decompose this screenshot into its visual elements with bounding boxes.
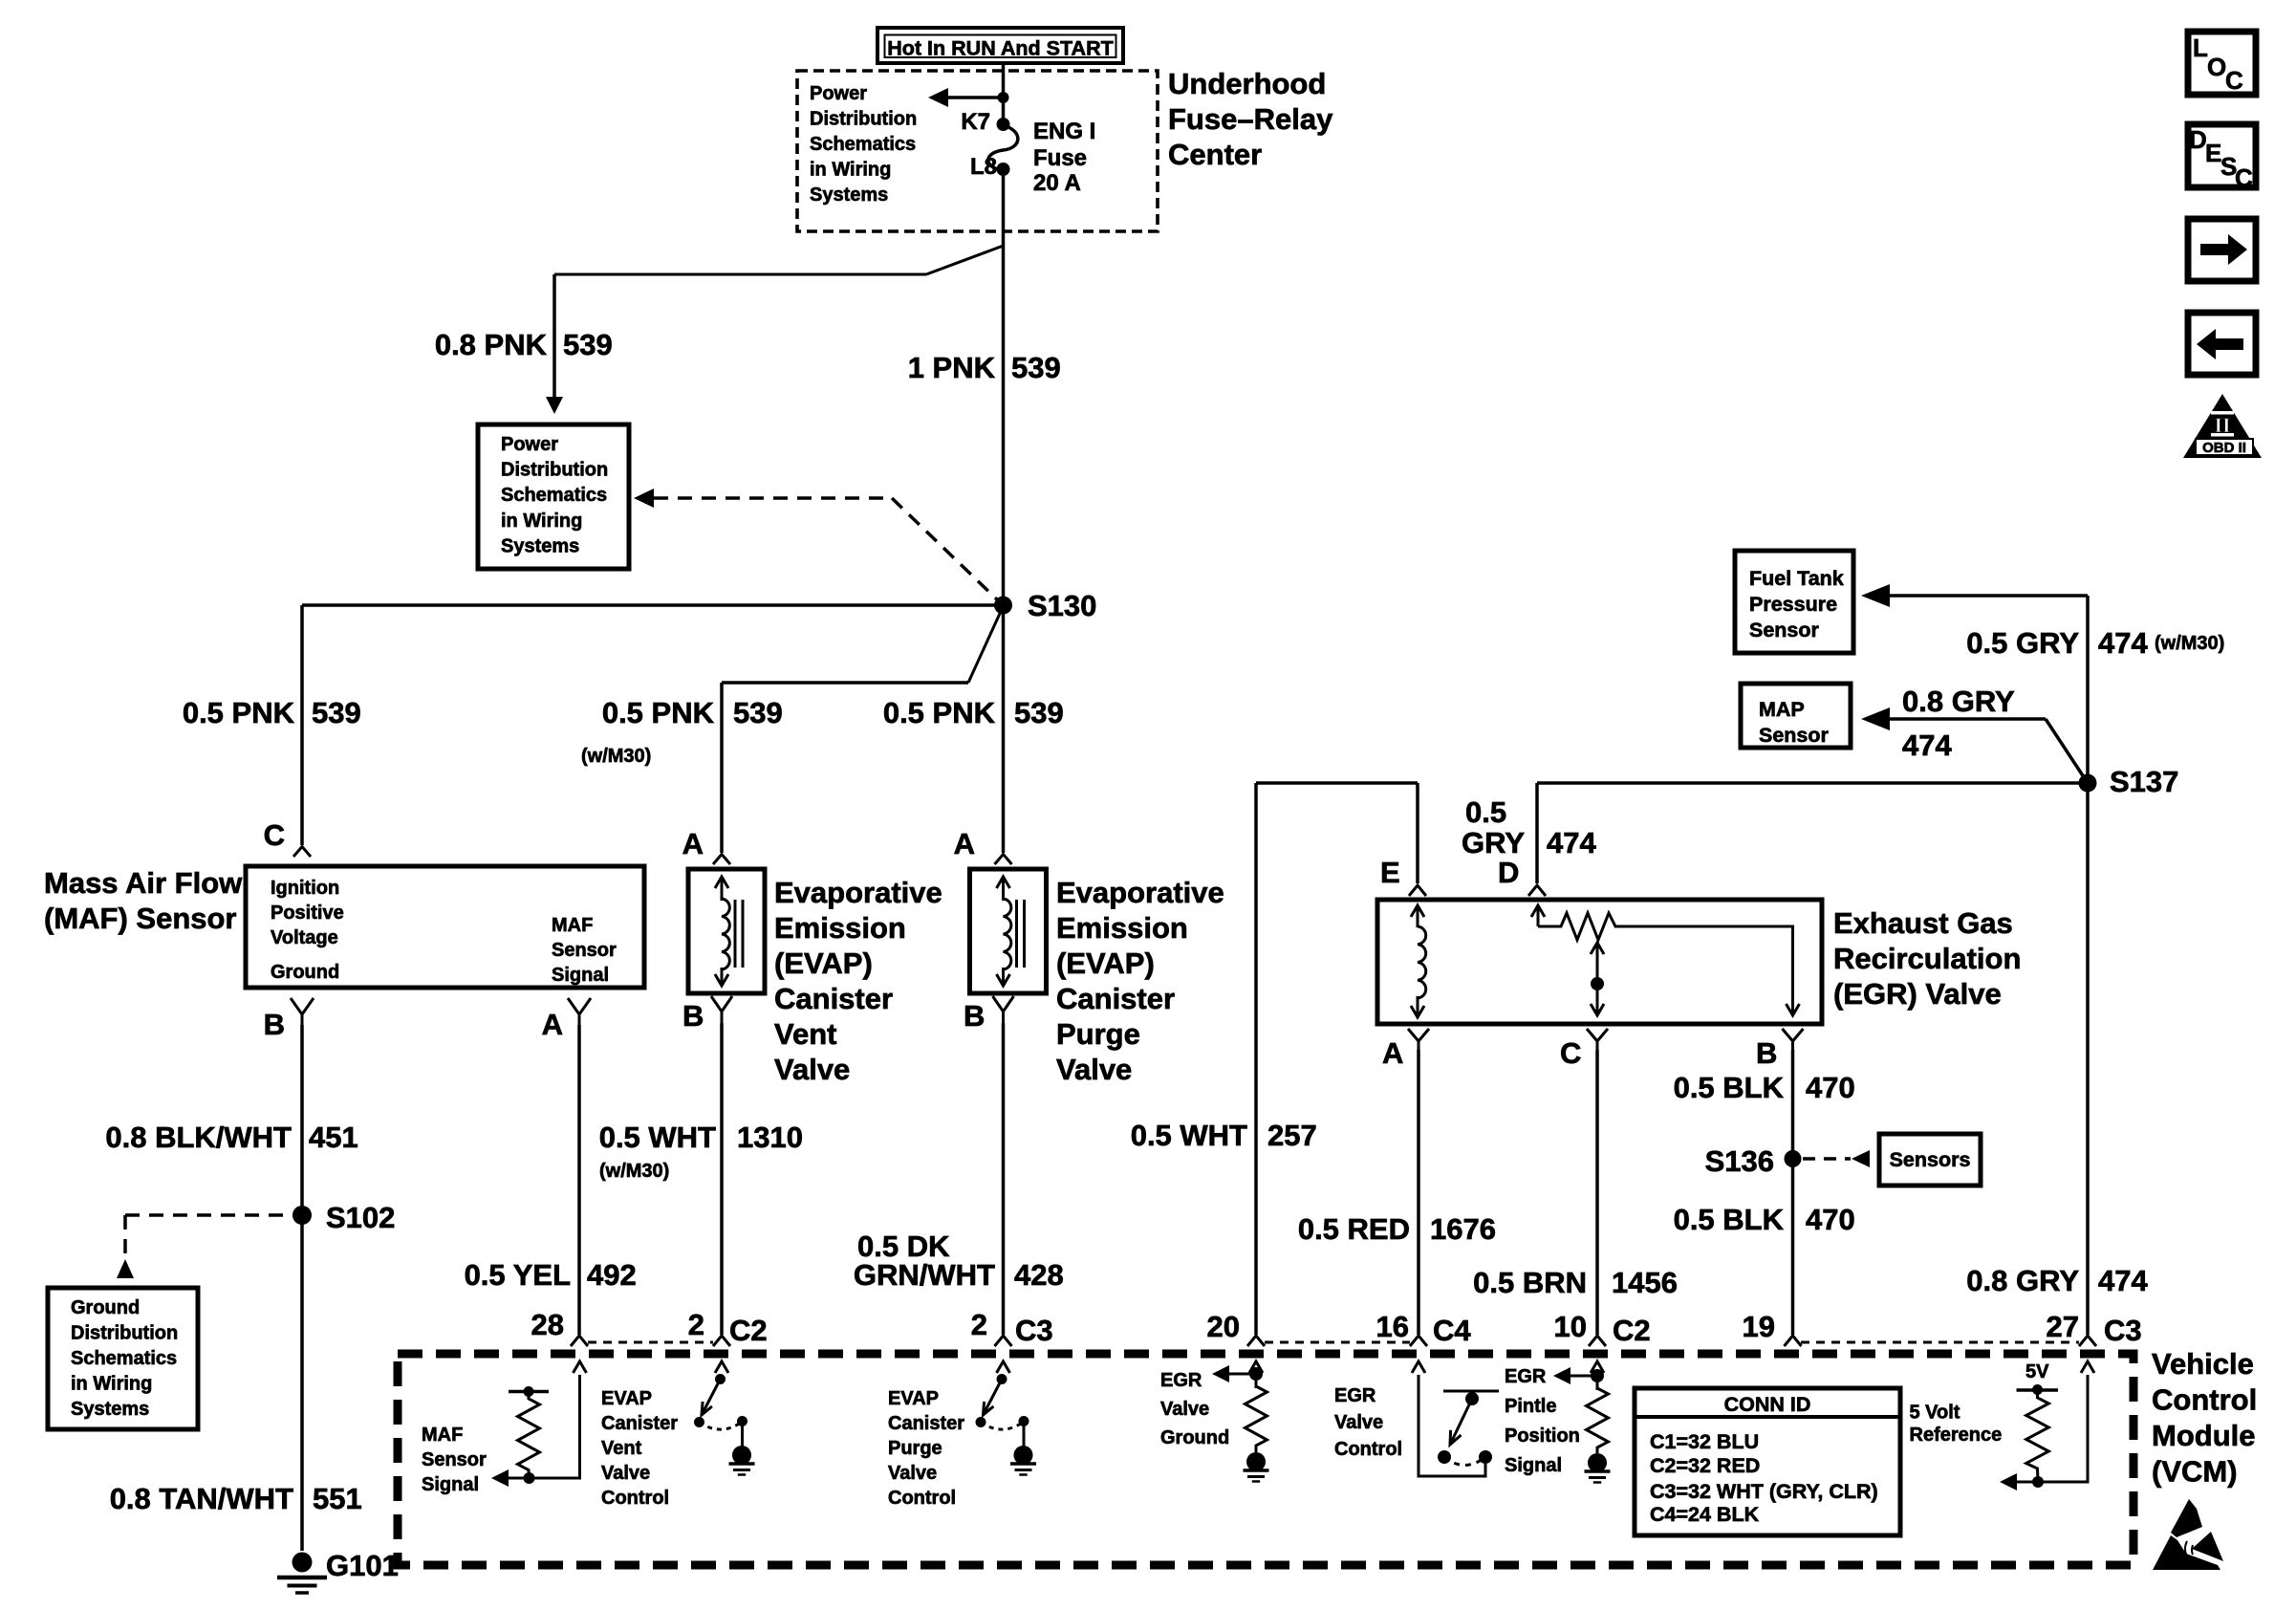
pin C of EGR valve bbox=[1560, 1029, 1608, 1070]
svg-text:2: 2 bbox=[688, 1308, 704, 1341]
svg-text:5 Volt: 5 Volt bbox=[1910, 1403, 1960, 1424]
svg-text:C2: C2 bbox=[729, 1314, 768, 1347]
label Exhaust Gas Recirculation (EGR) Valve bbox=[1833, 906, 2021, 1011]
svg-text:L: L bbox=[2193, 33, 2208, 62]
vehicle control module dashed box bbox=[398, 1354, 2134, 1565]
svg-text:E: E bbox=[2205, 139, 2221, 167]
wire 0.5 PNK 539 S130 to EVAP purge valve bbox=[1002, 605, 1006, 853]
icon OBD II triangle bbox=[2183, 394, 2262, 458]
pin E of EGR valve bbox=[1380, 856, 1426, 896]
svg-text:A: A bbox=[954, 827, 975, 860]
svg-text:470: 470 bbox=[1806, 1071, 1855, 1104]
VCM pin 20 bbox=[1207, 1310, 1265, 1346]
svg-text:257: 257 bbox=[1267, 1119, 1317, 1152]
wire 1 PNK from Hot box to fuse bbox=[1002, 64, 1006, 122]
svg-text:MAP: MAP bbox=[1759, 698, 1805, 721]
wire EGR pin E to VCM pin 20 bbox=[1256, 783, 1418, 1335]
svg-text:S136: S136 bbox=[1705, 1144, 1774, 1178]
svg-text:0.8 BLK/WHT: 0.8 BLK/WHT bbox=[105, 1120, 292, 1154]
dashed link pin 19 to pin 27 bbox=[1801, 1341, 2079, 1344]
svg-text:OBD II: OBD II bbox=[2202, 440, 2246, 456]
svg-text:MAF: MAF bbox=[422, 1425, 463, 1446]
svg-text:551: 551 bbox=[313, 1482, 362, 1515]
svg-text:S102: S102 bbox=[326, 1201, 395, 1234]
MAF sensor signal input circuit bbox=[422, 1361, 587, 1495]
svg-text:474: 474 bbox=[1902, 729, 1952, 762]
svg-text:B: B bbox=[264, 1008, 285, 1041]
svg-text:Sensor: Sensor bbox=[552, 940, 617, 961]
svg-text:ENG I: ENG I bbox=[1033, 119, 1095, 144]
svg-text:(w/M30): (w/M30) bbox=[2155, 633, 2224, 654]
svg-text:Vent: Vent bbox=[601, 1438, 642, 1459]
svg-text:Control: Control bbox=[601, 1488, 669, 1509]
wire 0.5 WHT 1310 vent valve to VCM pin 2 C2 bbox=[720, 1023, 724, 1335]
svg-text:1676: 1676 bbox=[1430, 1212, 1496, 1246]
5 volt reference circuit bbox=[1910, 1361, 2095, 1490]
svg-text:Hot In RUN And START: Hot In RUN And START bbox=[887, 37, 1113, 60]
svg-text:A: A bbox=[682, 827, 704, 860]
svg-text:B: B bbox=[1756, 1036, 1777, 1070]
wire EGR pin D to S137 bbox=[1537, 783, 2088, 883]
arrow wire to fuel tank pressure sensor bbox=[1861, 584, 2088, 607]
svg-text:GRY: GRY bbox=[1462, 826, 1525, 859]
svg-text:in Wiring: in Wiring bbox=[71, 1374, 152, 1395]
svg-text:Sensor: Sensor bbox=[422, 1449, 487, 1470]
svg-text:Voltage: Voltage bbox=[271, 927, 338, 948]
wire 0.5 GRY 474 main vertical to VCM pin 27 bbox=[2086, 596, 2090, 1335]
svg-text:Pressure: Pressure bbox=[1749, 593, 1837, 616]
wire 0.5 DK GRN/WHT 428 purge valve to VCM pin 2 C3 bbox=[1002, 1023, 1006, 1335]
svg-text:Valve: Valve bbox=[1334, 1412, 1383, 1433]
VCM pin 2 C3 bbox=[971, 1308, 1053, 1347]
svg-text:Sensors: Sensors bbox=[1890, 1148, 1971, 1171]
ESD warning symbol bbox=[2153, 1499, 2223, 1570]
svg-text:Power: Power bbox=[810, 83, 867, 104]
svg-text:492: 492 bbox=[587, 1258, 637, 1292]
MAP sensor box bbox=[1741, 684, 1851, 748]
svg-text:1 PNK: 1 PNK bbox=[908, 351, 996, 384]
svg-text:19: 19 bbox=[1743, 1310, 1775, 1343]
EVAP canister vent valve control driver bbox=[601, 1361, 755, 1509]
svg-text:Mass Air Flow: Mass Air Flow bbox=[44, 866, 243, 900]
svg-text:Emission: Emission bbox=[1056, 911, 1188, 945]
EVAP canister purge valve solenoid bbox=[970, 869, 1047, 993]
svg-text:Position: Position bbox=[1505, 1425, 1580, 1447]
label Evaporative Emission (EVAP) Canister Vent Valve bbox=[774, 876, 942, 1086]
pin C of MAF sensor bbox=[264, 818, 311, 857]
label Power Distribution Schematics in Wiring Systems (fuse box) bbox=[810, 83, 917, 206]
svg-text:Systems: Systems bbox=[71, 1399, 149, 1420]
svg-text:EGR: EGR bbox=[1505, 1366, 1547, 1387]
svg-text:A: A bbox=[542, 1008, 563, 1041]
svg-text:0.5 BRN: 0.5 BRN bbox=[1473, 1266, 1587, 1299]
node S136 bbox=[1705, 1144, 1802, 1178]
svg-text:L8: L8 bbox=[970, 154, 997, 180]
svg-text:474: 474 bbox=[2098, 1264, 2148, 1297]
svg-text:(EVAP): (EVAP) bbox=[1056, 946, 1155, 980]
svg-text:0.5 PNK: 0.5 PNK bbox=[602, 696, 715, 729]
svg-text:Systems: Systems bbox=[810, 185, 888, 206]
svg-text:Control: Control bbox=[2152, 1383, 2257, 1417]
wire 0.5 RED 1676 EGR A to VCM pin 16 bbox=[1417, 1050, 1420, 1335]
svg-text:Valve: Valve bbox=[601, 1463, 650, 1484]
svg-text:16: 16 bbox=[1376, 1310, 1409, 1343]
svg-text:(VCM): (VCM) bbox=[2152, 1455, 2238, 1489]
wire branch to 0.8 PNK 539 bbox=[546, 246, 1004, 414]
svg-text:CONN ID: CONN ID bbox=[1724, 1393, 1811, 1416]
svg-text:Canister: Canister bbox=[888, 1413, 964, 1434]
svg-text:20: 20 bbox=[1207, 1310, 1240, 1343]
wire 1 PNK 539 from fuse to S130 bbox=[1002, 169, 1006, 605]
wire S130 to MAF ignition feed bbox=[302, 605, 1004, 845]
svg-text:GRN/WHT: GRN/WHT bbox=[854, 1258, 995, 1292]
EVAP canister purge valve control driver bbox=[888, 1361, 1036, 1509]
svg-text:Purge: Purge bbox=[1056, 1017, 1140, 1051]
svg-text:C3: C3 bbox=[1015, 1314, 1053, 1347]
svg-text:EGR: EGR bbox=[1160, 1370, 1202, 1391]
label Vehicle Control Module (VCM) bbox=[2152, 1347, 2257, 1489]
icon right-arrow button bbox=[2188, 219, 2256, 281]
svg-text:C2=32 RED: C2=32 RED bbox=[1650, 1454, 1760, 1477]
svg-text:Sensor: Sensor bbox=[1759, 724, 1830, 747]
svg-text:Center: Center bbox=[1168, 138, 1262, 171]
svg-text:C: C bbox=[2235, 163, 2253, 192]
svg-text:Reference: Reference bbox=[1910, 1425, 2003, 1446]
svg-text:O: O bbox=[2207, 53, 2226, 81]
EGR potentiometer wiper C bbox=[1591, 943, 1604, 1015]
power distribution reference box bbox=[478, 424, 629, 569]
fuse ENG I 20 A with terminals K7 L8 bbox=[961, 109, 1095, 196]
svg-text:Vent: Vent bbox=[774, 1017, 836, 1051]
svg-text:MAF: MAF bbox=[552, 915, 593, 936]
node S102 bbox=[292, 1201, 395, 1234]
svg-text:0.5 RED: 0.5 RED bbox=[1298, 1212, 1410, 1246]
svg-text:EVAP: EVAP bbox=[888, 1388, 939, 1409]
svg-text:Evaporative: Evaporative bbox=[1056, 876, 1224, 909]
svg-text:Canister: Canister bbox=[774, 982, 893, 1015]
svg-text:0.8 GRY: 0.8 GRY bbox=[1966, 1264, 2079, 1297]
svg-text:539: 539 bbox=[312, 696, 361, 729]
EGR valve box bbox=[1377, 900, 1822, 1024]
dashed link pin 20 to pin 16 bbox=[1265, 1341, 1410, 1344]
svg-text:Distribution: Distribution bbox=[71, 1323, 178, 1344]
svg-text:Ignition: Ignition bbox=[271, 878, 339, 899]
svg-text:D: D bbox=[1498, 856, 1519, 889]
pin B of EVAP purge valve bbox=[964, 996, 1014, 1033]
svg-text:B: B bbox=[682, 999, 704, 1033]
svg-text:539: 539 bbox=[1014, 696, 1064, 729]
svg-text:539: 539 bbox=[733, 696, 783, 729]
svg-text:Module: Module bbox=[2152, 1419, 2256, 1452]
svg-text:Vehicle: Vehicle bbox=[2152, 1347, 2254, 1381]
icon left-arrow button bbox=[2188, 313, 2256, 375]
svg-text:Fuel Tank: Fuel Tank bbox=[1749, 567, 1844, 590]
svg-text:D: D bbox=[2189, 125, 2207, 154]
svg-text:28: 28 bbox=[531, 1308, 564, 1341]
wire S130 to EVAP vent valve bbox=[722, 606, 1004, 853]
svg-text:C3=32 WHT (GRY, CLR): C3=32 WHT (GRY, CLR) bbox=[1650, 1480, 1878, 1503]
label Evaporative Emission (EVAP) Canister Purge Valve bbox=[1056, 876, 1224, 1086]
svg-text:Ground: Ground bbox=[71, 1297, 140, 1318]
pin A of EVAP vent valve bbox=[682, 827, 730, 864]
svg-text:Positive: Positive bbox=[271, 903, 344, 924]
svg-text:Fuse: Fuse bbox=[1033, 145, 1087, 171]
VCM pin 2 C2 bbox=[688, 1308, 768, 1347]
svg-text:Valve: Valve bbox=[888, 1463, 937, 1484]
svg-text:Valve: Valve bbox=[1160, 1399, 1209, 1420]
wire 0.5 BRN 1456 EGR C to VCM pin 10 bbox=[1595, 1050, 1599, 1335]
svg-text:Power: Power bbox=[501, 434, 558, 455]
pin A of EGR valve bbox=[1382, 1029, 1429, 1070]
EGR solenoid coil E-A bbox=[1411, 905, 1426, 1017]
svg-text:Canister: Canister bbox=[1056, 982, 1175, 1015]
EGR valve control driver bbox=[1334, 1361, 1499, 1476]
svg-text:0.5 PNK: 0.5 PNK bbox=[183, 696, 295, 729]
dashed reference wire from S130 to power distribution box bbox=[634, 489, 997, 599]
svg-text:10: 10 bbox=[1554, 1310, 1587, 1343]
ground distribution reference box bbox=[48, 1288, 198, 1429]
svg-text:0.5 YEL: 0.5 YEL bbox=[465, 1258, 571, 1292]
ground G101 bbox=[277, 1549, 399, 1593]
svg-text:Ground: Ground bbox=[1160, 1427, 1229, 1448]
svg-text:0.5 WHT: 0.5 WHT bbox=[1131, 1119, 1247, 1152]
svg-text:474: 474 bbox=[2098, 626, 2148, 660]
dashed reference wire from S102 to ground distribution box bbox=[117, 1215, 292, 1278]
svg-text:Sensor: Sensor bbox=[1749, 619, 1820, 642]
svg-text:0.8 GRY: 0.8 GRY bbox=[1902, 685, 2015, 718]
svg-text:Systems: Systems bbox=[501, 536, 579, 557]
wire 0.8 BLK/WHT 451 (MAF ground to G101) bbox=[300, 1025, 304, 1551]
svg-text:Control: Control bbox=[1334, 1439, 1402, 1460]
svg-text:E: E bbox=[1380, 856, 1400, 889]
dashed reference wire S136 to sensors bbox=[1803, 1150, 1870, 1167]
svg-text:Emission: Emission bbox=[774, 911, 906, 945]
svg-text:C1=32 BLU: C1=32 BLU bbox=[1650, 1430, 1759, 1453]
pin B of EVAP vent valve bbox=[682, 996, 732, 1033]
svg-text:C4=24 BLK: C4=24 BLK bbox=[1650, 1503, 1760, 1526]
label Hot In RUN And START bbox=[877, 28, 1123, 63]
svg-text:0.5 BLK: 0.5 BLK bbox=[1674, 1203, 1785, 1236]
svg-text:Recirculation: Recirculation bbox=[1833, 942, 2021, 975]
MAF sensor box bbox=[246, 866, 644, 988]
svg-text:Valve: Valve bbox=[774, 1053, 850, 1086]
VCM pin 28 bbox=[531, 1308, 588, 1346]
svg-text:Ground: Ground bbox=[271, 962, 339, 983]
EGR valve ground circuit bbox=[1160, 1361, 1269, 1482]
sensors reference box bbox=[1879, 1134, 1981, 1186]
svg-text:0.5 GRY: 0.5 GRY bbox=[1966, 626, 2079, 660]
CONN ID table bbox=[1635, 1388, 1900, 1535]
svg-text:Fuse–Relay: Fuse–Relay bbox=[1168, 102, 1333, 136]
svg-text:Valve: Valve bbox=[1056, 1053, 1132, 1086]
icon DESC button bbox=[2188, 124, 2256, 192]
svg-text:EGR: EGR bbox=[1334, 1385, 1376, 1406]
svg-text:20 A: 20 A bbox=[1033, 170, 1081, 196]
svg-text:S137: S137 bbox=[2110, 765, 2178, 798]
VCM pin 27 C3 bbox=[2047, 1310, 2142, 1347]
svg-text:Signal: Signal bbox=[1505, 1455, 1562, 1476]
wire 0.5 BLK 470 EGR B to VCM pin 19 bbox=[1791, 1050, 1795, 1335]
svg-text:G101: G101 bbox=[326, 1549, 399, 1582]
svg-text:Signal: Signal bbox=[552, 965, 609, 986]
EGR pintle position signal circuit bbox=[1505, 1361, 1611, 1483]
svg-text:K7: K7 bbox=[961, 109, 990, 135]
pin A of MAF sensor bbox=[542, 998, 591, 1041]
svg-text:Schematics: Schematics bbox=[501, 485, 607, 506]
svg-text:0.8 TAN/WHT: 0.8 TAN/WHT bbox=[110, 1482, 293, 1515]
VCM pin 16 C4 bbox=[1376, 1310, 1472, 1347]
svg-text:C: C bbox=[1560, 1036, 1581, 1070]
svg-text:C: C bbox=[264, 818, 285, 852]
svg-text:Schematics: Schematics bbox=[810, 134, 916, 155]
svg-text:1310: 1310 bbox=[737, 1120, 803, 1154]
pin B of EGR valve bbox=[1756, 1029, 1804, 1070]
wire 0.5 YEL 492 (MAF signal to VCM pin 28) bbox=[577, 1025, 581, 1335]
svg-text:C2: C2 bbox=[1613, 1314, 1651, 1347]
svg-text:(w/M30): (w/M30) bbox=[581, 746, 651, 767]
underhood fuse-relay center dashed box bbox=[797, 71, 1158, 231]
svg-text:2: 2 bbox=[971, 1308, 987, 1341]
svg-text:Underhood: Underhood bbox=[1168, 67, 1326, 100]
svg-text:27: 27 bbox=[2047, 1310, 2079, 1343]
svg-text:C: C bbox=[2225, 66, 2243, 95]
svg-text:0.5 BLK: 0.5 BLK bbox=[1674, 1071, 1785, 1104]
svg-text:0.5: 0.5 bbox=[1465, 795, 1506, 829]
VCM pin 19 bbox=[1743, 1310, 1802, 1346]
VCM pin 10 C2 bbox=[1554, 1310, 1651, 1347]
svg-text:(w/M30): (w/M30) bbox=[599, 1161, 669, 1182]
svg-text:Signal: Signal bbox=[422, 1474, 479, 1495]
svg-text:Pintle: Pintle bbox=[1505, 1396, 1556, 1417]
svg-text:Evaporative: Evaporative bbox=[774, 876, 942, 909]
svg-text:Control: Control bbox=[888, 1488, 956, 1509]
svg-text:1456: 1456 bbox=[1612, 1266, 1678, 1299]
svg-text:539: 539 bbox=[1011, 351, 1061, 384]
svg-text:474: 474 bbox=[1547, 826, 1596, 859]
arrow wire from S137 to MAP sensor bbox=[1861, 707, 2088, 783]
svg-text:C4: C4 bbox=[1433, 1314, 1471, 1347]
svg-text:Canister: Canister bbox=[601, 1413, 678, 1434]
svg-text:(EGR) Valve: (EGR) Valve bbox=[1833, 977, 2002, 1011]
icon LOC button bbox=[2188, 32, 2256, 95]
svg-text:451: 451 bbox=[309, 1120, 358, 1154]
svg-text:EVAP: EVAP bbox=[601, 1388, 652, 1409]
svg-text:C3: C3 bbox=[2104, 1314, 2142, 1347]
svg-text:Distribution: Distribution bbox=[501, 460, 608, 481]
svg-text:S130: S130 bbox=[1028, 589, 1096, 622]
svg-text:539: 539 bbox=[563, 328, 613, 361]
svg-text:(EVAP): (EVAP) bbox=[774, 946, 873, 980]
EGR pintle position potentiometer bbox=[1531, 905, 1800, 1015]
svg-text:5V: 5V bbox=[2025, 1361, 2049, 1382]
svg-text:in Wiring: in Wiring bbox=[501, 511, 582, 532]
dashed link pin 28 to pin 2 bbox=[588, 1341, 713, 1344]
svg-text:Distribution: Distribution bbox=[810, 109, 917, 130]
svg-text:0.5 WHT: 0.5 WHT bbox=[599, 1120, 716, 1154]
svg-text:A: A bbox=[1382, 1036, 1403, 1070]
pin D of EGR valve bbox=[1498, 856, 1546, 896]
svg-text:in Wiring: in Wiring bbox=[810, 160, 891, 181]
fuel tank pressure sensor box bbox=[1735, 551, 1853, 653]
svg-text:B: B bbox=[964, 999, 985, 1033]
svg-text:0.5 PNK: 0.5 PNK bbox=[883, 696, 996, 729]
node S130 bbox=[994, 589, 1096, 622]
pin B of MAF sensor bbox=[264, 998, 314, 1041]
pin A of EVAP purge valve bbox=[954, 827, 1012, 864]
node and arrow to Power Distribution reference bbox=[928, 88, 1009, 107]
svg-text:Exhaust Gas: Exhaust Gas bbox=[1833, 906, 2013, 940]
svg-text:428: 428 bbox=[1014, 1258, 1064, 1292]
node S137 bbox=[2079, 765, 2179, 798]
EVAP canister vent valve solenoid bbox=[688, 869, 765, 993]
svg-text:Purge: Purge bbox=[888, 1438, 942, 1459]
svg-text:Schematics: Schematics bbox=[71, 1348, 177, 1369]
svg-text:0.8 PNK: 0.8 PNK bbox=[435, 328, 548, 361]
svg-text:470: 470 bbox=[1806, 1203, 1855, 1236]
svg-text:(MAF) Sensor: (MAF) Sensor bbox=[44, 902, 237, 935]
